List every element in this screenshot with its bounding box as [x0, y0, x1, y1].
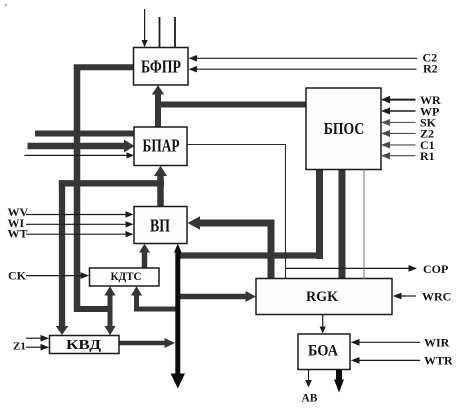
block БПОС [306, 88, 381, 170]
wire Z1 into КВД [26, 346, 42, 348]
wire ВП right input bus horizontal [198, 220, 275, 227]
wire БПОС bottom-right vertical to RGK [339, 169, 346, 279]
wire БПАР to БФПР vertical [155, 93, 161, 128]
arrow COP [409, 265, 418, 272]
block RGK [256, 279, 392, 315]
block КВД [50, 336, 120, 354]
wire RGK to БОА [322, 315, 324, 328]
arrow into БОА top [320, 327, 326, 334]
arrow SK [381, 119, 390, 126]
svg-text:RGK: RGK [306, 289, 338, 305]
arrow R1 [381, 152, 390, 159]
wire WV into ВП [26, 214, 127, 216]
block БФПР [134, 48, 189, 86]
arrow CK [81, 272, 90, 279]
wire thin left input into БПАР [25, 154, 129, 156]
svg-text:Z1: Z1 [13, 341, 26, 353]
wire left input bus 1 into БПАР [35, 131, 135, 137]
arrow Z1 [41, 344, 50, 351]
arrow up into КДТС bottom (second) [131, 286, 142, 295]
wire left input bus 2 into БПАР [28, 143, 127, 150]
wire CK into КДТС [26, 275, 82, 277]
wire БПАР right output thin [188, 145, 286, 280]
arrow black up into ВП bottom [174, 244, 182, 253]
svg-text:WIR: WIR [424, 336, 450, 350]
svg-text:WTR: WTR [424, 354, 453, 368]
wire ВП to КДТС vertical [142, 252, 148, 269]
arrow R2 [189, 66, 198, 73]
arrow C1 [381, 142, 390, 149]
wire КВД output to black line [119, 341, 167, 346]
arrow bus 2 into БПАР left [124, 140, 135, 153]
arrow thin into БПАР left [127, 152, 135, 158]
arrow WTR [351, 357, 360, 364]
arrow black big down (bottom output) [171, 374, 185, 389]
wire АВ output from БОА bottom [308, 370, 310, 382]
wire ВП to БПАР vertical [157, 175, 164, 208]
svg-text:БПАР: БПАР [143, 136, 180, 156]
arrow up into ВП bottom [139, 244, 150, 253]
block КДТС [90, 268, 160, 286]
wire SK into БПОС [388, 121, 416, 123]
wire КДТС-КВД vertical link [108, 294, 113, 327]
arrow into БФПР bottom [152, 85, 164, 94]
wire black main vertical line [175, 250, 180, 375]
arrow Z2 [381, 130, 390, 137]
speck top-left [5, 4, 7, 6]
wire WP into БПОС [388, 110, 416, 112]
wire top input 3 into БФПР [174, 17, 176, 48]
arrow C2 [189, 55, 198, 62]
svg-text:АВ: АВ [302, 393, 318, 405]
wire bus БПОС to black line horizontal [176, 252, 324, 258]
svg-text:R1: R1 [420, 149, 435, 163]
wire bus black line to RGK left [176, 294, 248, 300]
svg-text:КДТС: КДТС [111, 271, 142, 283]
svg-text:WRC: WRC [422, 289, 451, 303]
arrow WI [126, 221, 134, 227]
wire top input 1 into БФПР [144, 9, 146, 42]
arrow КВД output into black line [165, 338, 176, 348]
arrow into БПАР bottom [154, 166, 167, 176]
block БПАР [134, 127, 187, 166]
arrow down into КВД top [104, 326, 115, 335]
wire Z2 into БПОС [388, 132, 416, 134]
wire БПОС thin bottom line to RGK [363, 170, 365, 280]
svg-text:COP: COP [423, 262, 448, 276]
arrow WT [126, 231, 134, 237]
wire bus B horizontal to ВП-БПАР line [59, 180, 164, 186]
wire WT into ВП [26, 233, 127, 235]
wire bus A vertical (left tall gray bus) [74, 65, 81, 312]
wire R2 into БФПР right [195, 68, 417, 70]
wire bus B vertical (second left gray bus) [59, 180, 65, 328]
arrow WRC [393, 293, 402, 300]
wire upper input into КВД [26, 337, 42, 339]
svg-text:КВД: КВД [66, 337, 102, 352]
wire WRC into RGK right [400, 295, 416, 297]
svg-text:CK: CK [8, 269, 27, 283]
block БОА [298, 334, 350, 370]
arrow WP [381, 108, 390, 115]
wire БОА black output arrow [336, 370, 342, 381]
svg-text:WT: WT [8, 227, 28, 241]
wire COP output [286, 267, 411, 269]
wire БПОС bottom-left vertical [316, 169, 323, 259]
wire branch from black line to КДТС line [134, 307, 179, 312]
wire top input 2 into БФПР [159, 17, 161, 48]
arrow up into КДТС bottom [104, 286, 115, 295]
wire WR into БПОС [388, 99, 416, 101]
arrow WR [381, 96, 390, 104]
wire R1 into БПОС [388, 155, 416, 157]
wire bus A bottom horizontal joining КДТС-КВД line [74, 306, 112, 312]
svg-text:R2: R2 [423, 62, 438, 76]
wire bus A top horizontal into БФПР left [74, 64, 135, 70]
arrow АВ [305, 380, 312, 388]
wire C2 into БФПР right [195, 57, 417, 59]
arrow upper КВД [41, 335, 50, 342]
svg-text:ВП: ВП [150, 216, 170, 236]
svg-text:БФПР: БФПР [141, 56, 181, 76]
arrow БОА black down [334, 380, 344, 393]
arrow bus B into КВД top [56, 326, 68, 335]
arrow into ВП right [188, 216, 201, 230]
block ВП [134, 207, 187, 244]
arrow top input 1 [142, 40, 148, 47]
arrow WV [126, 211, 134, 217]
wire КДТС second bottom line [134, 294, 139, 309]
svg-text:БОА: БОА [308, 343, 339, 360]
wire WIR into БОА right [358, 341, 420, 343]
wire C1 into БПОС [388, 144, 416, 146]
svg-text:БПОС: БПОС [324, 119, 365, 138]
arrow into RGK left [246, 291, 257, 302]
arrow WIR [351, 339, 360, 346]
wire bus to БПОС left [155, 102, 307, 108]
wire ВП right input bus vertical from RGK top [268, 220, 275, 280]
wire WTR into БОА right [358, 359, 420, 361]
wire WI into ВП [26, 223, 127, 225]
